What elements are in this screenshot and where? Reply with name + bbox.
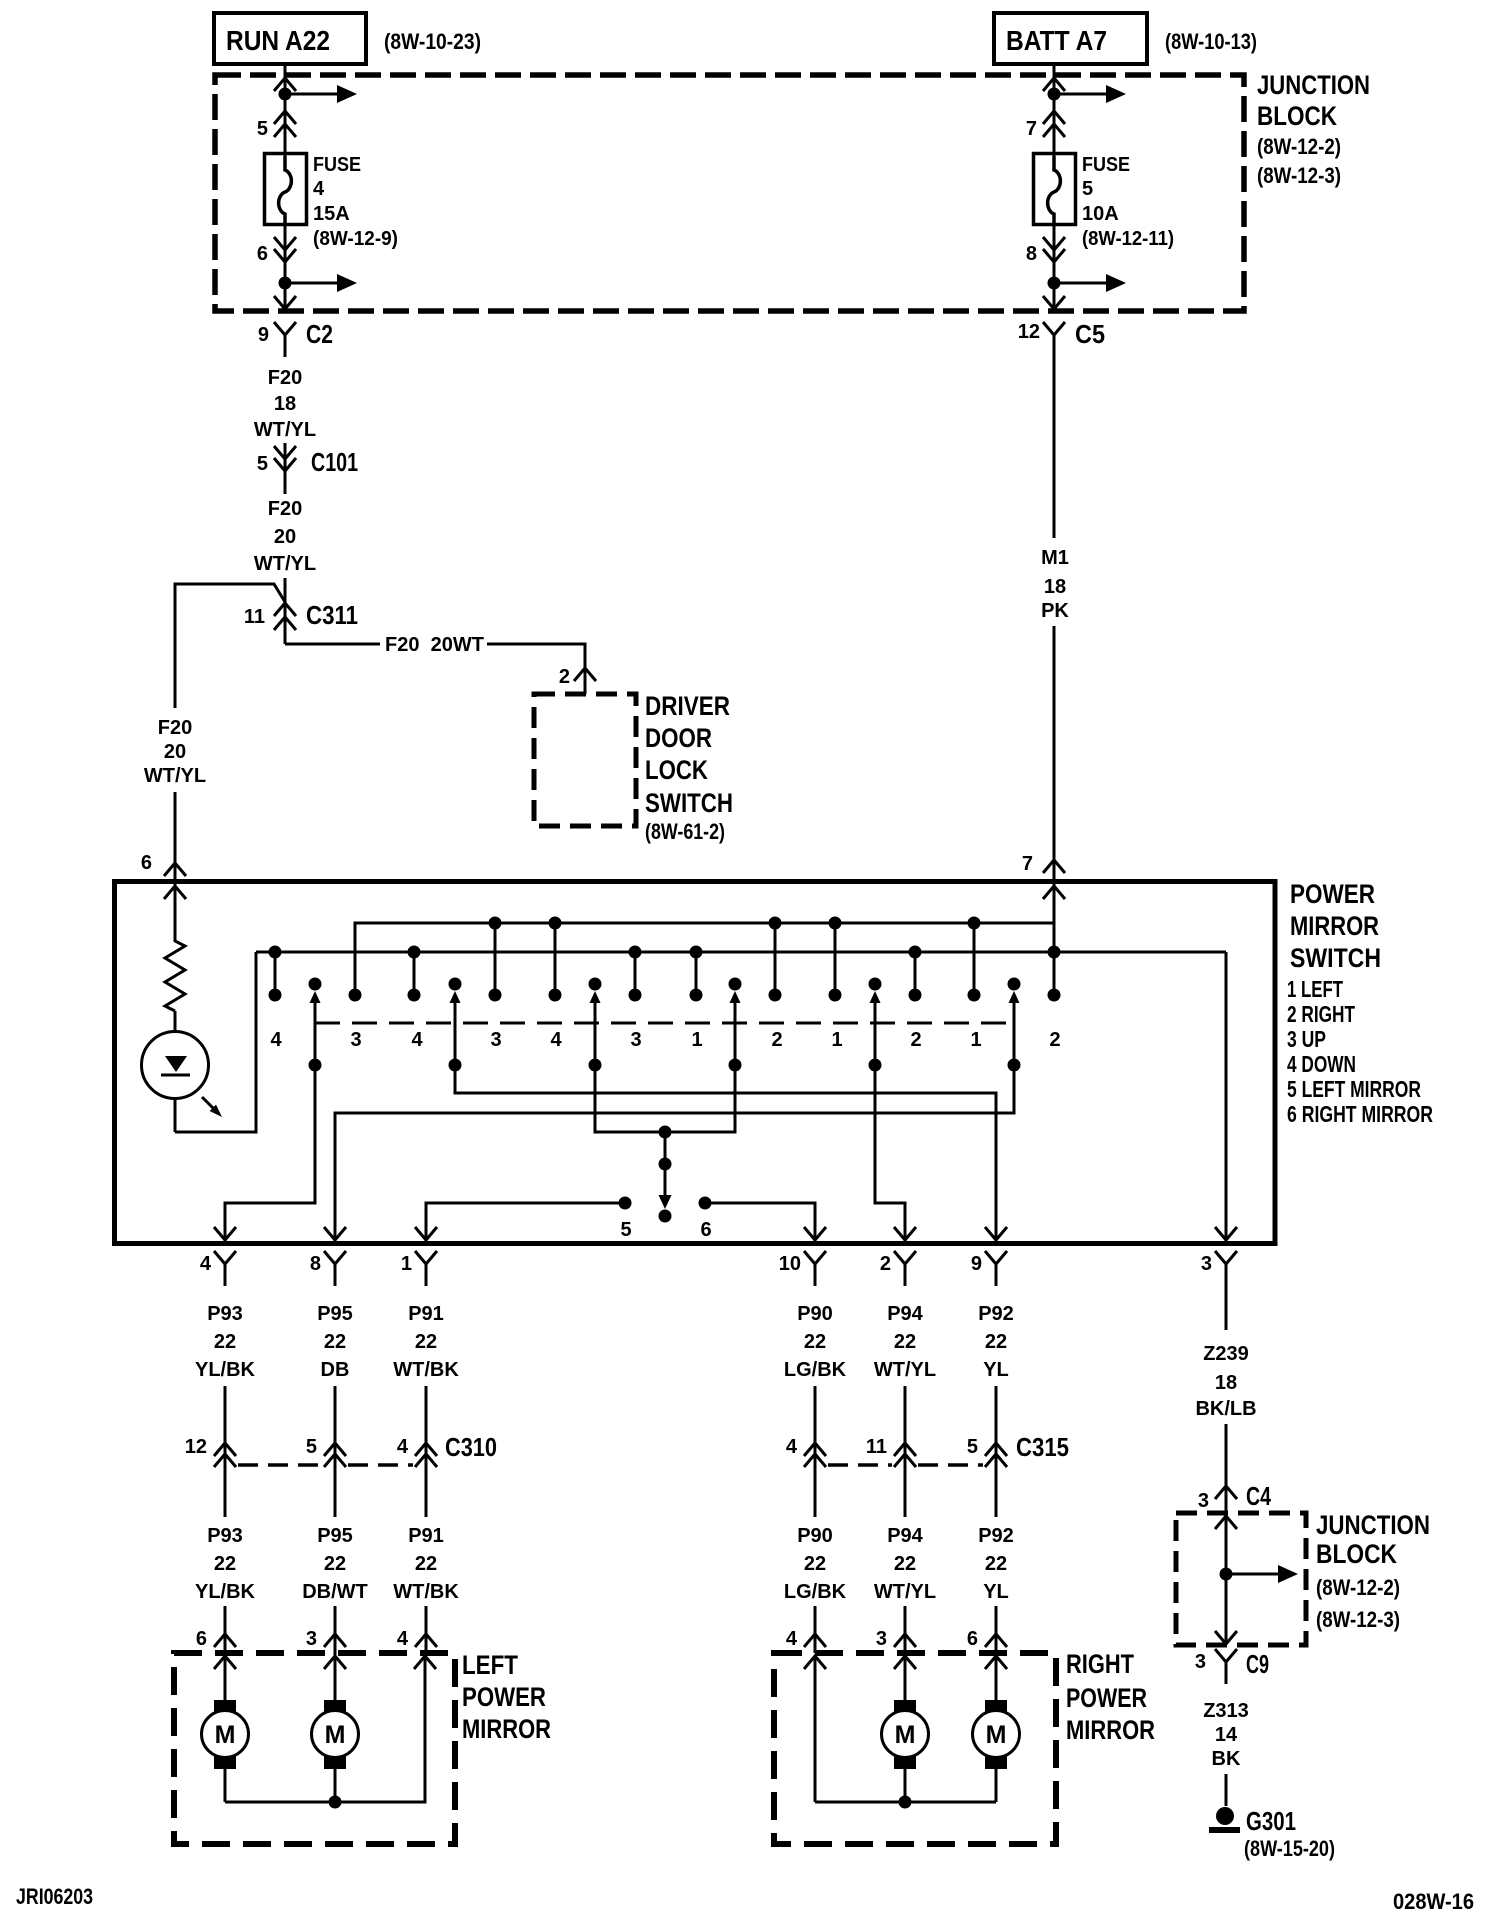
svg-text:WT/YL: WT/YL — [144, 765, 206, 787]
connector C5 pin 12 — [1043, 322, 1065, 335]
fuse 5 body — [1034, 154, 1076, 225]
svg-text:LEFT: LEFT — [462, 1650, 518, 1680]
wire through connector C310/C315 at x=815 — [814, 1386, 817, 1517]
svg-text:18: 18 — [1044, 576, 1066, 598]
svg-text:22: 22 — [214, 1331, 236, 1353]
bus A stub at x=835 — [834, 923, 837, 995]
connector pin 3 below switch — [1215, 1251, 1237, 1264]
svg-text:7: 7 — [1022, 853, 1033, 875]
svg-text:15A: 15A — [313, 203, 350, 225]
wire C2 to C101 — [284, 443, 287, 494]
entry arrow pin 7 inside switch — [1043, 886, 1065, 899]
connector C310 chevrons pin 4 — [415, 1443, 437, 1456]
svg-text:P92: P92 — [978, 1525, 1014, 1547]
svg-text:5: 5 — [257, 118, 268, 140]
svg-text:Z313: Z313 — [1203, 1700, 1249, 1722]
connector C101 pin 5 — [274, 446, 296, 459]
switch wiper at x=735 — [729, 978, 742, 991]
svg-text:C310: C310 — [445, 1432, 497, 1462]
LED lamp circle — [142, 1032, 209, 1099]
svg-text:9: 9 — [258, 324, 269, 346]
svg-text:3: 3 — [876, 1628, 887, 1650]
LED cathode bar — [161, 1074, 190, 1077]
left mirror common wire — [225, 1656, 425, 1802]
wire C101 to C311 — [284, 578, 287, 644]
ground G301 symbol — [1216, 1807, 1234, 1825]
power mirror switch box — [115, 882, 1276, 1244]
svg-text:6: 6 — [141, 852, 152, 874]
svg-text:JRI06203: JRI06203 — [16, 1884, 93, 1909]
wire through lower junction block — [1225, 1513, 1228, 1645]
selector contact 5 — [619, 1197, 632, 1210]
svg-text:P95: P95 — [317, 1525, 353, 1547]
svg-text:(8W-12-3): (8W-12-3) — [1316, 1607, 1400, 1632]
exit arrow lower junction block — [1215, 1631, 1237, 1644]
right mirror motor 2 wire bottom — [995, 1769, 998, 1802]
svg-text:5: 5 — [967, 1436, 978, 1458]
svg-text:8: 8 — [1026, 243, 1037, 265]
svg-text:P94: P94 — [887, 1525, 923, 1547]
svg-text:YL: YL — [983, 1581, 1009, 1603]
entry arrow at junction block top left — [274, 78, 296, 91]
svg-text:MIRROR: MIRROR — [462, 1714, 551, 1744]
svg-text:G301: G301 — [1246, 1806, 1296, 1836]
svg-text:4: 4 — [786, 1628, 798, 1650]
svg-text:(8W-12-2): (8W-12-2) — [1316, 1575, 1400, 1600]
right mirror common wire — [815, 1801, 996, 1804]
svg-text:(8W-61-2): (8W-61-2) — [645, 819, 725, 844]
svg-text:FUSE: FUSE — [1082, 154, 1130, 176]
svg-text:22: 22 — [415, 1553, 437, 1575]
entry arrow lower junction block — [1215, 1516, 1237, 1529]
svg-text:LOCK: LOCK — [645, 755, 708, 785]
svg-text:11: 11 — [866, 1436, 887, 1458]
svg-text:P95: P95 — [317, 1303, 353, 1325]
svg-text:WT/YL: WT/YL — [254, 419, 316, 441]
entry arrows right mirror — [804, 1656, 826, 1669]
svg-text:JUNCTION: JUNCTION — [1257, 70, 1370, 100]
svg-text:C9: C9 — [1246, 1649, 1269, 1679]
svg-text:7: 7 — [1026, 118, 1037, 140]
svg-text:PK: PK — [1041, 600, 1069, 622]
connector pin 9 below switch — [985, 1251, 1007, 1264]
svg-text:F20: F20 — [158, 717, 192, 739]
svg-text:BLOCK: BLOCK — [1257, 101, 1337, 131]
svg-text:2: 2 — [771, 1029, 782, 1051]
svg-text:3: 3 — [1195, 1651, 1206, 1673]
node junction dot below fuse 5 — [1048, 277, 1061, 290]
svg-text:F20: F20 — [268, 498, 302, 520]
svg-text:YL/BK: YL/BK — [195, 1581, 256, 1603]
wire RUN A22 to junction block — [284, 64, 287, 78]
pin 5 connector chevrons fuse 4 — [274, 111, 296, 124]
svg-text:6: 6 — [196, 1628, 207, 1650]
svg-text:5: 5 — [1082, 178, 1093, 200]
svg-text:M: M — [986, 1721, 1007, 1749]
svg-text:5: 5 — [620, 1219, 631, 1241]
bus A stub at x=974 — [973, 923, 976, 995]
node selector junction — [659, 1126, 672, 1139]
svg-text:C4: C4 — [1246, 1481, 1271, 1511]
branch arrow below fuse 5 — [1054, 282, 1108, 285]
svg-text:028W-16: 028W-16 — [1393, 1889, 1474, 1914]
svg-text:2: 2 — [880, 1253, 891, 1275]
svg-text:6: 6 — [700, 1219, 711, 1241]
svg-text:P90: P90 — [797, 1303, 833, 1325]
wire mirror selector common — [595, 1065, 735, 1132]
left power mirror dashed box — [174, 1653, 455, 1844]
stationary contact dots — [269, 989, 282, 1002]
svg-text:(8W-12-2): (8W-12-2) — [1257, 134, 1341, 159]
branch arrow below fuse 4 — [285, 282, 339, 285]
connector C311 pin 11 — [274, 603, 296, 616]
wire into mirror pin 3 — [334, 1606, 337, 1653]
svg-text:P91: P91 — [408, 1525, 444, 1547]
wire BATT feed inside junction block to fuse 5 — [1053, 75, 1056, 156]
bus B stub at x=696 — [695, 952, 698, 995]
svg-text:22: 22 — [324, 1553, 346, 1575]
svg-text:22: 22 — [804, 1553, 826, 1575]
connector pin 4 below switch — [214, 1251, 236, 1264]
svg-text:C101: C101 — [311, 447, 358, 477]
svg-text:RIGHT: RIGHT — [1066, 1649, 1134, 1679]
svg-text:10A: 10A — [1082, 203, 1119, 225]
svg-text:SWITCH: SWITCH — [1290, 943, 1381, 973]
svg-text:6: 6 — [967, 1628, 978, 1650]
svg-text:C2: C2 — [306, 319, 333, 349]
connector pin 10 below switch — [804, 1251, 826, 1264]
svg-text:DB/WT: DB/WT — [302, 1581, 368, 1603]
wire through connector C310/C315 at x=996 — [995, 1386, 998, 1517]
svg-text:2: 2 — [1049, 1029, 1060, 1051]
svg-text:BLOCK: BLOCK — [1316, 1539, 1397, 1569]
bus A stub at x=495 — [494, 923, 497, 995]
internal bus A — [355, 923, 1054, 995]
svg-text:F20 20WT: F20 20WT — [385, 634, 484, 656]
wire through connector C310/C315 at x=905 — [904, 1386, 907, 1517]
wire through connector C310/C315 at x=225 — [224, 1386, 227, 1517]
svg-text:1: 1 — [970, 1029, 981, 1051]
entry arrows left mirror — [214, 1656, 236, 1669]
svg-text:18: 18 — [1215, 1372, 1237, 1394]
left mirror motor 1 wire top — [224, 1653, 227, 1700]
switch wiper at x=1014 — [1008, 978, 1021, 991]
left mirror motor 2 wire top — [334, 1653, 337, 1700]
LED light arrow — [202, 1097, 213, 1108]
illumination resistor — [165, 884, 185, 1011]
svg-text:M1: M1 — [1041, 547, 1069, 569]
node junction dot right feed — [1048, 88, 1061, 101]
svg-text:C5: C5 — [1075, 319, 1105, 349]
svg-text:11: 11 — [244, 606, 265, 628]
selector wiper arrow — [664, 1164, 667, 1196]
svg-text:POWER: POWER — [1290, 879, 1375, 909]
svg-text:P90: P90 — [797, 1525, 833, 1547]
switch wiper at x=595 — [589, 978, 602, 991]
svg-text:4: 4 — [200, 1253, 212, 1275]
svg-text:POWER: POWER — [1066, 1683, 1147, 1713]
svg-text:M: M — [895, 1721, 916, 1749]
svg-text:3: 3 — [306, 1628, 317, 1650]
svg-text:LG/BK: LG/BK — [784, 1581, 847, 1603]
wire Z239 to C4 — [1225, 1286, 1228, 1330]
driver door lock switch dashed box — [534, 694, 636, 826]
svg-text:3: 3 — [490, 1029, 501, 1051]
right power mirror dashed box — [774, 1653, 1056, 1844]
lower junction block dashed box — [1176, 1513, 1306, 1645]
switch wiper at x=315 — [309, 978, 322, 991]
svg-text:FUSE: FUSE — [313, 154, 361, 176]
power feed box BATT A7 — [994, 13, 1147, 64]
svg-text:LG/BK: LG/BK — [784, 1359, 847, 1381]
svg-text:2 RIGHT: 2 RIGHT — [1287, 1001, 1355, 1027]
svg-text:C311: C311 — [306, 600, 358, 630]
svg-text:P92: P92 — [978, 1303, 1014, 1325]
svg-text:4: 4 — [786, 1436, 798, 1458]
bus B stub at x=414 — [413, 952, 416, 995]
wire into mirror pin 6 — [995, 1606, 998, 1653]
svg-text:C315: C315 — [1016, 1432, 1069, 1462]
svg-text:BATT A7: BATT A7 — [1006, 25, 1107, 56]
wire to ground G301 — [1225, 1774, 1228, 1806]
svg-text:(8W-12-9): (8W-12-9) — [313, 228, 398, 250]
bus A stub at x=555 — [554, 923, 557, 995]
svg-text:DB: DB — [321, 1359, 350, 1381]
entry arrow at junction block top right — [1043, 78, 1065, 91]
wire C5 to switch pin 7 upper — [1053, 335, 1056, 538]
bus B stub at x=915 — [914, 952, 917, 995]
wire into mirror pin 4 — [814, 1606, 817, 1653]
connector C315 chevrons pin 11 — [894, 1443, 916, 1456]
connector C9 pin 3 — [1215, 1649, 1237, 1662]
right mirror motor M1 — [894, 1700, 916, 1713]
connector chevron switch pin 6 — [164, 863, 186, 876]
exit arrow junction block bottom left — [274, 296, 296, 309]
svg-text:P94: P94 — [887, 1303, 923, 1325]
svg-text:MIRROR: MIRROR — [1066, 1715, 1155, 1745]
svg-text:9: 9 — [971, 1253, 982, 1275]
selector contact 6 — [699, 1197, 712, 1210]
connector pin 2 below switch — [894, 1251, 916, 1264]
right mirror motor 1 wire top — [904, 1653, 907, 1700]
svg-text:6: 6 — [257, 243, 268, 265]
bus B junction dot at pin7 wire — [1048, 946, 1061, 959]
left mirror motor 2 wire bottom — [334, 1769, 337, 1802]
wire BATT A7 to junction block — [1053, 64, 1056, 78]
left mirror motor M2 — [324, 1700, 346, 1713]
connector C310 dashed link — [238, 1463, 322, 1467]
svg-text:P93: P93 — [207, 1303, 243, 1325]
svg-text:5 LEFT MIRROR: 5 LEFT MIRROR — [1287, 1076, 1421, 1102]
wire wiper to switch pin 8 exit — [335, 1065, 1014, 1241]
svg-text:WT/BK: WT/BK — [393, 1359, 459, 1381]
switch wiper at x=875 — [869, 978, 882, 991]
svg-text:12: 12 — [1018, 321, 1040, 343]
svg-text:1 LEFT: 1 LEFT — [1287, 976, 1343, 1002]
svg-text:4: 4 — [397, 1436, 409, 1458]
svg-text:22: 22 — [985, 1331, 1007, 1353]
svg-text:P91: P91 — [408, 1303, 444, 1325]
svg-text:WT/YL: WT/YL — [874, 1359, 936, 1381]
pin 7 connector chevrons fuse 5 — [1043, 111, 1065, 124]
wire wiper to switch pin 9 exit — [455, 1065, 996, 1241]
svg-text:22: 22 — [804, 1331, 826, 1353]
exit arrow junction block bottom right — [1043, 296, 1065, 309]
svg-text:14: 14 — [1215, 1724, 1238, 1746]
wire C311 to driver door lock switch — [285, 643, 380, 646]
connector C315 dashed link — [828, 1463, 892, 1467]
svg-text:P93: P93 — [207, 1525, 243, 1547]
wire into mirror pin 4 — [425, 1606, 428, 1653]
pin 8 connector chevrons fuse 5 — [1043, 237, 1065, 250]
svg-text:Z239: Z239 — [1203, 1343, 1249, 1365]
svg-text:WT/YL: WT/YL — [874, 1581, 936, 1603]
left mirror motor M1 — [214, 1700, 236, 1713]
svg-text:1: 1 — [401, 1253, 412, 1275]
svg-text:20: 20 — [164, 741, 186, 763]
wire switch pin 7 to contact — [1053, 884, 1056, 995]
connector C310 chevrons pin 12 — [214, 1443, 236, 1456]
node left mirror common junction — [329, 1796, 342, 1809]
svg-text:4: 4 — [313, 178, 325, 200]
svg-text:18: 18 — [274, 393, 296, 415]
bus B stub at x=275 — [274, 952, 277, 995]
svg-text:3: 3 — [350, 1029, 361, 1051]
connector C310 chevrons pin 5 — [324, 1443, 346, 1456]
right mirror feed wire — [814, 1656, 817, 1802]
svg-text:22: 22 — [894, 1553, 916, 1575]
svg-text:22: 22 — [415, 1331, 437, 1353]
svg-text:22: 22 — [985, 1553, 1007, 1575]
mechanical link dashed line — [315, 1022, 1014, 1025]
svg-text:WT/YL: WT/YL — [254, 553, 316, 575]
svg-text:F20: F20 — [268, 367, 302, 389]
svg-text:(8W-12-11): (8W-12-11) — [1082, 228, 1174, 250]
wire down to switch pin 6 — [174, 792, 177, 881]
branch arrow left feed — [285, 93, 339, 96]
wire fuse 5 to connector C5 — [1053, 222, 1056, 309]
wire through connector C310/C315 at x=426 — [425, 1386, 428, 1517]
svg-text:(8W-12-3): (8W-12-3) — [1257, 163, 1341, 188]
wire into mirror pin 6 — [224, 1606, 227, 1653]
connector C315 chevrons pin 5 — [985, 1443, 1007, 1456]
svg-text:DOOR: DOOR — [645, 723, 712, 753]
wire wiper to switch pin 2 exit — [875, 1065, 905, 1241]
connector C2 pin 9 — [274, 322, 296, 335]
branch arrow right feed — [1054, 93, 1108, 96]
connector chevron door lock pin 2 — [574, 668, 596, 681]
svg-text:4: 4 — [550, 1029, 562, 1051]
svg-text:6 RIGHT MIRROR: 6 RIGHT MIRROR — [1287, 1101, 1433, 1127]
svg-text:3 UP: 3 UP — [1287, 1026, 1326, 1052]
exit arrows at switch bottom edge — [214, 1227, 236, 1240]
svg-text:5: 5 — [257, 453, 268, 475]
svg-text:3: 3 — [1198, 1490, 1209, 1512]
svg-text:YL: YL — [983, 1359, 1009, 1381]
LED diode triangle — [165, 1056, 187, 1072]
svg-text:20: 20 — [274, 526, 296, 548]
power feed box RUN A22 — [214, 13, 366, 64]
svg-text:4: 4 — [397, 1628, 409, 1650]
svg-text:4: 4 — [270, 1029, 282, 1051]
svg-text:1: 1 — [691, 1029, 702, 1051]
svg-text:POWER: POWER — [462, 1682, 546, 1712]
svg-text:M: M — [215, 1721, 236, 1749]
node lower junction block dot — [1220, 1568, 1233, 1581]
node right mirror common junction — [899, 1796, 912, 1809]
wire resistor to LED — [174, 1011, 177, 1132]
svg-text:22: 22 — [324, 1331, 346, 1353]
bus B stub at x=635 — [634, 952, 637, 995]
node junction dot left feed — [279, 88, 292, 101]
svg-text:22: 22 — [214, 1553, 236, 1575]
wire wiper to switch pin 4 exit — [225, 1065, 315, 1241]
LED return wire to internal bus B — [175, 952, 256, 1132]
svg-text:10: 10 — [779, 1253, 801, 1275]
left mirror motor 1 wire bottom — [224, 1769, 227, 1802]
wire fuse 4 to connector C2 — [284, 222, 287, 309]
svg-text:4: 4 — [411, 1029, 423, 1051]
internal bus B — [256, 951, 1226, 954]
svg-text:SWITCH: SWITCH — [645, 788, 733, 818]
wire into mirror pin 3 — [904, 1606, 907, 1653]
connector C315 chevrons pin 4 — [804, 1443, 826, 1456]
svg-text:5: 5 — [306, 1436, 317, 1458]
branch wire to power mirror switch pin 6 — [175, 584, 285, 708]
wire bus B to switch pin 3 exit — [1225, 952, 1228, 1241]
junction block dashed boundary — [215, 75, 1244, 311]
svg-text:WT/BK: WT/BK — [393, 1581, 459, 1603]
right mirror motor 1 wire bottom — [904, 1769, 907, 1802]
svg-text:(8W-15-20): (8W-15-20) — [1244, 1836, 1335, 1861]
svg-text:(8W-10-13): (8W-10-13) — [1165, 29, 1257, 54]
wire M1 lower segment — [1053, 626, 1056, 881]
svg-text:2: 2 — [559, 666, 570, 688]
connector pin 1 below switch — [415, 1251, 437, 1264]
svg-text:3: 3 — [630, 1029, 641, 1051]
connector pin 8 below switch — [324, 1251, 346, 1264]
connector chevron switch pin 7 — [1043, 860, 1065, 873]
svg-text:22: 22 — [894, 1331, 916, 1353]
svg-text:1: 1 — [831, 1029, 842, 1051]
svg-text:8: 8 — [310, 1253, 321, 1275]
fuse 4 body — [265, 154, 307, 225]
wire RUN feed inside junction block to fuse 4 — [284, 75, 287, 156]
entry arrow pin 6 inside switch — [164, 886, 186, 899]
svg-text:BK: BK — [1212, 1748, 1241, 1770]
connector C4 pin 3 — [1215, 1486, 1237, 1499]
svg-text:12: 12 — [185, 1436, 207, 1458]
switch wiper at x=455 — [449, 978, 462, 991]
svg-text:RUN A22: RUN A22 — [226, 25, 330, 56]
svg-text:YL/BK: YL/BK — [195, 1359, 256, 1381]
bus A stub at x=775 — [774, 923, 777, 995]
node junction dot below fuse 4 — [279, 277, 292, 290]
svg-text:(8W-10-23): (8W-10-23) — [384, 29, 481, 54]
pin 6 connector chevrons fuse 4 — [274, 237, 296, 250]
svg-text:BK/LB: BK/LB — [1195, 1398, 1256, 1420]
svg-text:JUNCTION: JUNCTION — [1316, 1510, 1430, 1540]
svg-text:MIRROR: MIRROR — [1290, 911, 1379, 941]
svg-text:DRIVER: DRIVER — [645, 691, 730, 721]
svg-text:M: M — [325, 1721, 346, 1749]
branch arrow lower junction block — [1226, 1573, 1280, 1576]
svg-text:3: 3 — [1201, 1253, 1212, 1275]
right mirror motor M2 — [985, 1700, 1007, 1713]
svg-text:4 DOWN: 4 DOWN — [1287, 1051, 1356, 1077]
right mirror motor 2 wire top — [995, 1653, 998, 1700]
wire through connector C310/C315 at x=335 — [334, 1386, 337, 1517]
